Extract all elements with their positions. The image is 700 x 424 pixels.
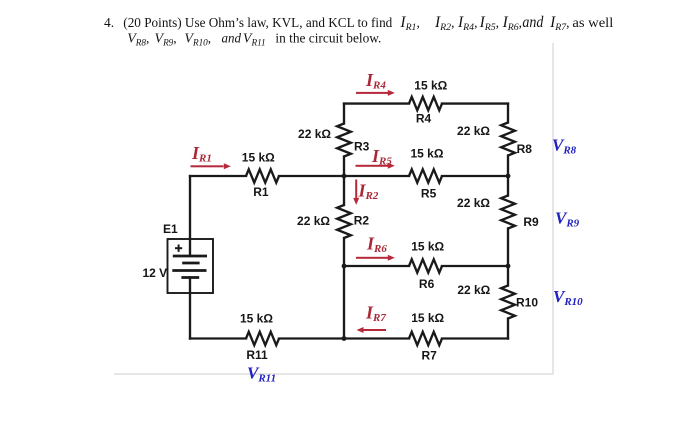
wire R6 rail right segment <box>442 265 508 267</box>
wire bottom rail node E to R7 <box>344 337 409 339</box>
svg-text:IR7: IR7 <box>365 303 386 325</box>
svg-text:22 kΩ: 22 kΩ <box>457 124 490 138</box>
battery E1 plus sign <box>175 245 182 252</box>
svg-text:IR4: IR4 <box>365 70 386 92</box>
svg-text:IR7,: IR7, <box>549 14 569 33</box>
svg-text:R4: R4 <box>416 112 432 126</box>
svg-text:R9: R9 <box>523 215 539 229</box>
svg-text:15 kΩ: 15 kΩ <box>411 147 444 161</box>
wire center column node C to node E <box>343 266 345 339</box>
svg-text:R10: R10 <box>516 296 538 310</box>
svg-text:VR9,: VR9, <box>155 30 177 47</box>
resistor R1 zigzag <box>246 169 279 182</box>
wire top rail right segment <box>442 102 508 104</box>
svg-text:22 kΩ: 22 kΩ <box>297 214 330 228</box>
wire mid rail R5 to node B <box>442 175 508 177</box>
svg-text:22 kΩ: 22 kΩ <box>457 283 490 297</box>
wire right column R10 to bottom rail <box>507 319 509 339</box>
current arrow I_R5 <box>356 163 395 169</box>
svg-text:in the circuit below.: in the circuit below. <box>275 30 381 45</box>
resistor R6 zigzag <box>409 259 442 272</box>
wire top rail left segment <box>344 102 409 104</box>
resistor R2 zigzag <box>337 205 351 238</box>
svg-text:15 kΩ: 15 kΩ <box>414 79 447 93</box>
svg-text:R6: R6 <box>419 277 435 291</box>
svg-text:and: and <box>522 14 543 31</box>
node E junction dot <box>342 336 347 341</box>
wire right column R9 to R10 <box>507 229 509 286</box>
node A junction dot <box>342 174 347 179</box>
node C junction dot <box>342 264 347 269</box>
resistor R4 zigzag <box>409 97 442 110</box>
resistor R9 zigzag <box>501 196 515 229</box>
svg-text:R8: R8 <box>517 142 533 156</box>
svg-text:R1: R1 <box>253 185 269 199</box>
svg-text:15 kΩ: 15 kΩ <box>411 311 444 325</box>
svg-text:VR11: VR11 <box>243 31 266 47</box>
svg-text:IR5: IR5 <box>371 146 392 168</box>
svg-text:15 kΩ: 15 kΩ <box>240 312 273 326</box>
current arrow I_R4 <box>356 90 395 96</box>
svg-text:VR10: VR10 <box>553 287 583 308</box>
wire right column R8 to R9 <box>507 156 509 196</box>
svg-text:and: and <box>222 31 242 46</box>
resistor R8 zigzag <box>501 123 515 156</box>
wire bottom rail R11 to node E <box>279 337 344 339</box>
wire mid rail node A to R5 <box>344 175 409 177</box>
wire R6 rail left segment <box>344 265 409 267</box>
svg-text:IR2,: IR2, <box>434 14 454 33</box>
svg-text:22 kΩ: 22 kΩ <box>457 196 490 210</box>
svg-text:4.: 4. <box>104 15 114 30</box>
svg-text:R5: R5 <box>421 187 437 201</box>
svg-text:IR6,: IR6, <box>502 14 522 33</box>
svg-text:IR1: IR1 <box>191 143 212 165</box>
svg-text:VR8,: VR8, <box>127 30 149 47</box>
wire center column R3 to node A <box>343 157 345 206</box>
svg-text:IR6: IR6 <box>366 234 387 256</box>
svg-text:12 V: 12 V <box>143 266 168 280</box>
current arrow I_R6 <box>356 255 395 261</box>
resistor R3 zigzag <box>337 124 351 157</box>
svg-text:R3: R3 <box>354 140 370 154</box>
wire bottom rail R7 to right column <box>442 337 508 339</box>
wire center column R2 to node C <box>343 238 345 266</box>
svg-text:VR9: VR9 <box>555 209 580 230</box>
node D junction dot <box>506 264 511 269</box>
wire left column bottom (battery to bottom rail) <box>189 278 191 339</box>
svg-text:IR2: IR2 <box>358 181 379 203</box>
svg-text:R11: R11 <box>246 348 268 362</box>
svg-text:E1: E1 <box>163 222 178 236</box>
svg-text:R7: R7 <box>422 349 438 363</box>
svg-text:IR1,: IR1, <box>399 14 419 33</box>
problem text line 2 <box>127 30 381 47</box>
image frame right edge <box>552 43 554 374</box>
wire mid rail left segment <box>190 175 246 177</box>
image frame bottom edge <box>114 373 553 375</box>
svg-text:IR4,: IR4, <box>457 14 477 33</box>
svg-text:15 kΩ: 15 kΩ <box>242 151 275 165</box>
svg-text:R2: R2 <box>354 214 370 228</box>
svg-text:15 kΩ: 15 kΩ <box>411 240 444 254</box>
current arrow I_R7 (leftward) <box>357 327 387 333</box>
current arrow I_R2 (downward) <box>353 180 359 205</box>
wire center column top corner to R3 <box>343 104 345 124</box>
node B junction dot <box>506 174 511 179</box>
battery E1 box <box>168 239 214 293</box>
svg-text:VR10,: VR10, <box>184 30 211 47</box>
resistor R7 zigzag <box>409 332 442 345</box>
resistor R10 zigzag <box>501 286 515 319</box>
svg-text:VR8: VR8 <box>552 136 577 157</box>
wire mid rail between R1 and node A <box>279 175 344 177</box>
svg-text:VR11: VR11 <box>247 364 276 385</box>
resistor R5 zigzag <box>409 169 442 182</box>
svg-text:IR5,: IR5, <box>479 14 499 33</box>
svg-text:(20 Points) Use Ohm’s law, KVL: (20 Points) Use Ohm’s law, KVL, and KCL … <box>123 15 392 30</box>
problem text line 1 <box>104 14 614 33</box>
wire left column top (to battery plate) <box>189 176 191 256</box>
svg-text:22 kΩ: 22 kΩ <box>298 127 331 141</box>
wire right column top corner to R8 <box>507 104 509 123</box>
battery E1 plates <box>172 256 207 278</box>
wire bottom rail battery to R11 <box>190 337 246 339</box>
current arrow I_R1 <box>191 163 231 169</box>
resistor R11 zigzag <box>246 332 279 345</box>
svg-text:as well: as well <box>572 15 613 30</box>
